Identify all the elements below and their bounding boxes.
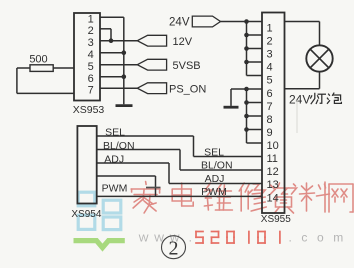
- svg-text:7: 7: [88, 85, 94, 97]
- svg-text:6: 6: [267, 88, 273, 100]
- svg-text:8: 8: [267, 114, 273, 126]
- svg-text:5: 5: [267, 75, 273, 87]
- svg-text:ADJ: ADJ: [104, 153, 124, 165]
- svg-text:SEL: SEL: [204, 146, 224, 158]
- svg-text:5VSB: 5VSB: [173, 60, 201, 72]
- svg-text:1: 1: [88, 14, 94, 26]
- svg-text:4: 4: [88, 49, 94, 61]
- svg-text:13: 13: [267, 179, 279, 191]
- svg-text:PWM: PWM: [201, 186, 227, 198]
- svg-text:500: 500: [29, 54, 47, 66]
- svg-text:12: 12: [267, 166, 279, 178]
- svg-text:10: 10: [267, 140, 279, 152]
- svg-text:2: 2: [169, 237, 179, 259]
- svg-text:3: 3: [88, 37, 94, 49]
- svg-text:.com: .com: [289, 231, 353, 245]
- svg-text:.: .: [189, 231, 192, 245]
- svg-text:BL/ON: BL/ON: [201, 160, 233, 172]
- svg-text:11: 11: [267, 153, 278, 165]
- svg-text:4: 4: [267, 62, 273, 74]
- svg-text:2: 2: [267, 35, 273, 47]
- svg-text:XS955: XS955: [261, 214, 291, 225]
- svg-text:PWM: PWM: [102, 183, 128, 195]
- svg-text:24V: 24V: [169, 17, 190, 29]
- svg-text:9: 9: [267, 127, 273, 139]
- svg-text:6: 6: [88, 73, 94, 85]
- svg-text:2: 2: [88, 25, 94, 37]
- svg-text:3: 3: [267, 49, 273, 61]
- svg-text:24V: 24V: [289, 93, 310, 107]
- svg-text:PS_ON: PS_ON: [169, 83, 206, 95]
- svg-text:5: 5: [88, 61, 94, 73]
- svg-text:XS953: XS953: [73, 104, 105, 116]
- svg-text:SEL: SEL: [105, 126, 125, 138]
- svg-text:12V: 12V: [173, 36, 193, 48]
- svg-text:1: 1: [267, 22, 273, 34]
- svg-text:14: 14: [267, 192, 279, 204]
- svg-text:XS954: XS954: [71, 209, 101, 220]
- svg-text:7: 7: [267, 101, 273, 113]
- svg-text:BL/ON: BL/ON: [103, 140, 135, 152]
- svg-text:ADJ: ADJ: [205, 173, 225, 185]
